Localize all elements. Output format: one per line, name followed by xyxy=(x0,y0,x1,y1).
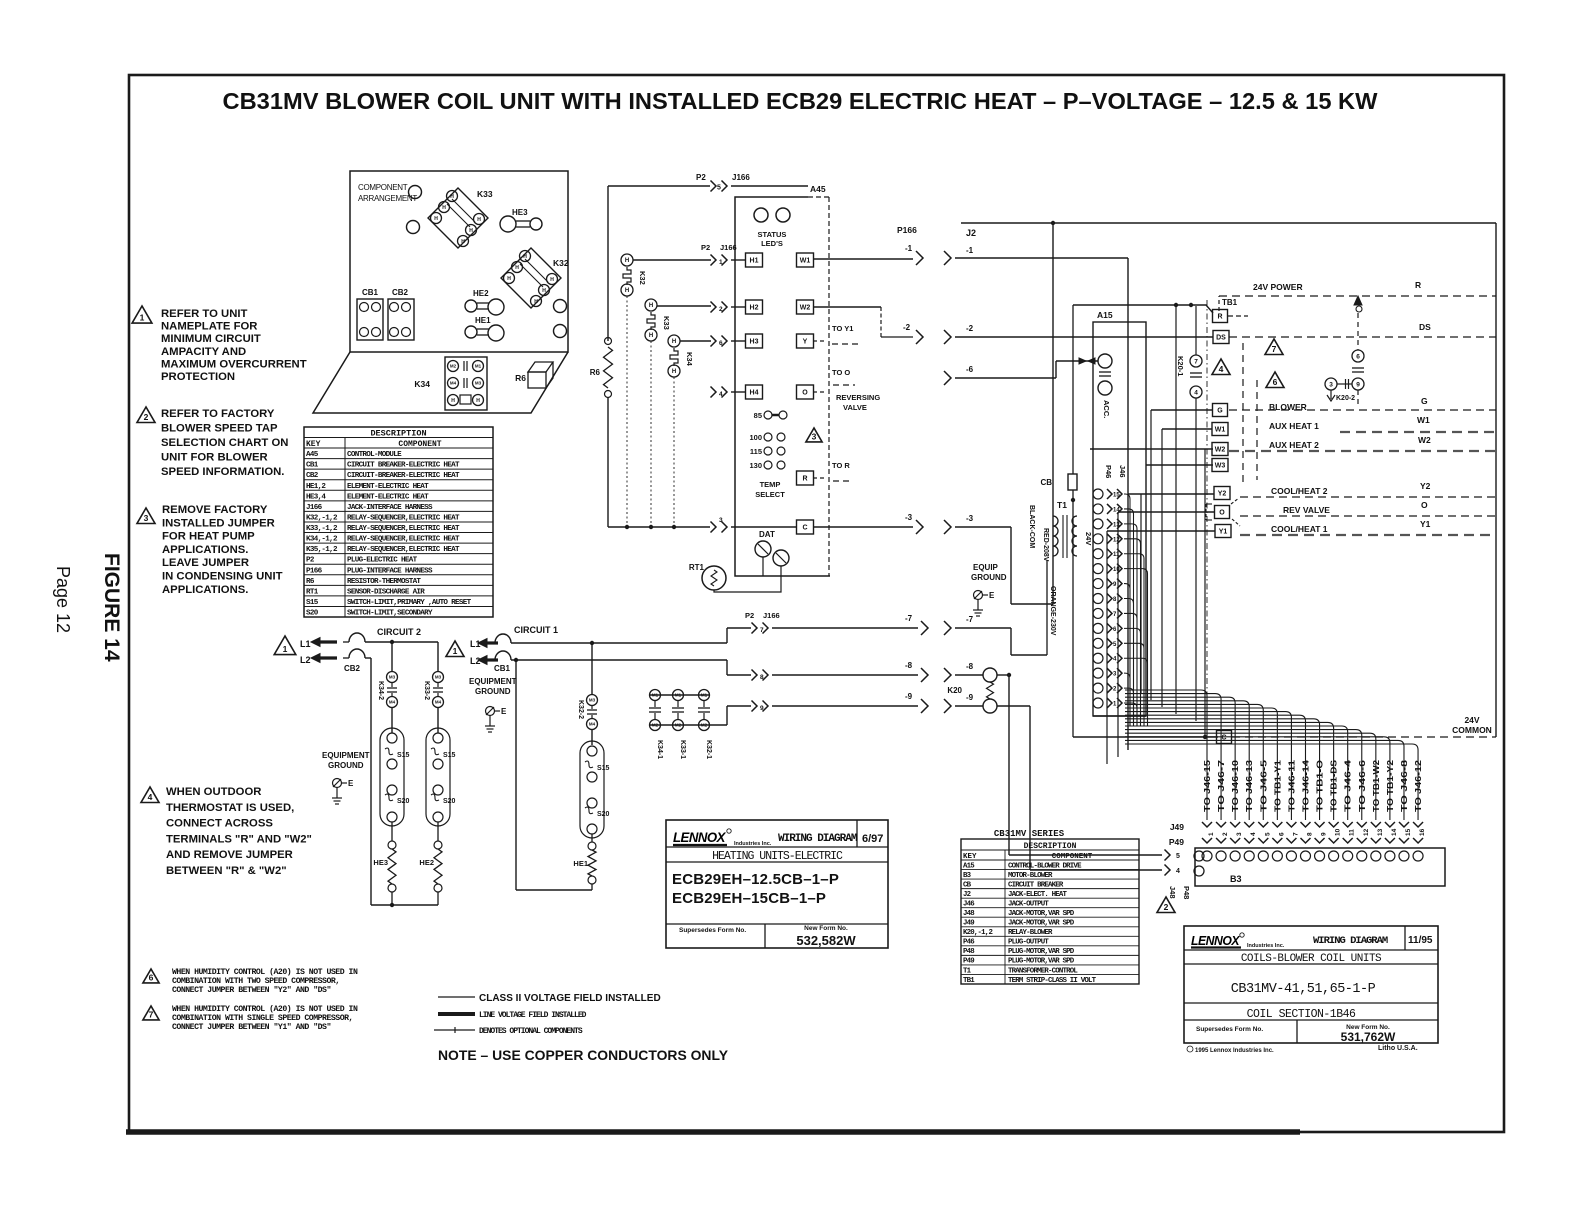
svg-text:REVERSING: REVERSING xyxy=(836,393,880,402)
svg-text:M4: M4 xyxy=(389,700,396,705)
svg-text:W2: W2 xyxy=(1215,447,1226,454)
svg-text:CONTROL-MODULE: CONTROL-MODULE xyxy=(347,451,402,459)
svg-text:12: 12 xyxy=(1113,537,1120,543)
svg-text:CB31MV-41,51,65-1-P: CB31MV-41,51,65-1-P xyxy=(1231,982,1376,997)
svg-text:REV VALVE: REV VALVE xyxy=(1283,505,1330,515)
svg-text:BETWEEN "R" & "W2": BETWEEN "R" & "W2" xyxy=(166,865,287,877)
svg-text:TO TB1-O: TO TB1-O xyxy=(1315,759,1325,812)
svg-text:H: H xyxy=(507,276,511,282)
svg-text:TO J46-8: TO J46-8 xyxy=(1399,759,1409,812)
svg-text:INSTALLED JUMPER: INSTALLED JUMPER xyxy=(162,517,275,529)
svg-text:M2: M2 xyxy=(701,723,708,728)
svg-text:3: 3 xyxy=(812,431,817,441)
svg-text:NOTE – USE COPPER CONDUCTORS O: NOTE – USE COPPER CONDUCTORS ONLY xyxy=(438,1048,728,1063)
svg-text:CIRCUIT 2: CIRCUIT 2 xyxy=(377,627,421,637)
svg-text:2: 2 xyxy=(1164,902,1169,912)
svg-text:CONNECT ACROSS: CONNECT ACROSS xyxy=(166,818,273,830)
svg-text:A45: A45 xyxy=(306,451,319,459)
svg-text:1: 1 xyxy=(283,644,288,654)
svg-text:R6: R6 xyxy=(590,368,601,377)
svg-text:W1: W1 xyxy=(1215,427,1226,434)
svg-text:RESISTOR-THERMOSTAT: RESISTOR-THERMOSTAT xyxy=(347,578,421,586)
svg-text:CLASS II VOLTAGE FIELD INSTALL: CLASS II VOLTAGE FIELD INSTALLED xyxy=(479,993,661,1004)
svg-text:SENSOR-DISCHARGE AIR: SENSOR-DISCHARGE AIR xyxy=(347,588,425,596)
svg-text:MOTOR-BLOWER: MOTOR-BLOWER xyxy=(1008,872,1053,880)
svg-text:Industries Inc.: Industries Inc. xyxy=(1247,943,1285,949)
svg-text:-3: -3 xyxy=(905,513,913,522)
svg-text:J48: J48 xyxy=(1168,886,1177,899)
svg-text:J166: J166 xyxy=(720,243,737,252)
svg-text:H2: H2 xyxy=(750,305,759,312)
svg-text:M3: M3 xyxy=(589,698,596,703)
svg-text:2: 2 xyxy=(144,412,149,422)
svg-text:SWITCH-LIMIT,PRIMARY ,AUTO RES: SWITCH-LIMIT,PRIMARY ,AUTO RESET xyxy=(347,599,472,607)
svg-text:S20: S20 xyxy=(597,811,610,818)
svg-text:2: 2 xyxy=(1113,687,1117,693)
svg-text:TO Y1: TO Y1 xyxy=(832,324,853,333)
svg-text:New Form No.: New Form No. xyxy=(804,925,848,932)
svg-text:R6: R6 xyxy=(515,373,526,383)
svg-text:TO J46-14: TO J46-14 xyxy=(1300,759,1310,812)
svg-text:130: 130 xyxy=(749,461,762,470)
svg-text:WHEN HUMIDITY CONTROL (A20) IS: WHEN HUMIDITY CONTROL (A20) IS NOT USED … xyxy=(172,1004,358,1014)
svg-text:FIGURE 14: FIGURE 14 xyxy=(100,553,123,662)
svg-text:ECB29EH–15CB–1–P: ECB29EH–15CB–1–P xyxy=(672,890,826,907)
svg-text:CIRCUIT-BREAKER-ELECTRIC HEAT: CIRCUIT-BREAKER-ELECTRIC HEAT xyxy=(347,472,460,480)
svg-text:O: O xyxy=(802,390,808,397)
svg-text:TERMINALS "R" AND "W2": TERMINALS "R" AND "W2" xyxy=(166,833,312,845)
svg-text:M2: M2 xyxy=(675,723,682,728)
svg-text:1: 1 xyxy=(453,646,458,656)
svg-text:E: E xyxy=(501,707,507,716)
svg-text:COMPONENT: COMPONENT xyxy=(358,183,408,192)
svg-text:3: 3 xyxy=(144,513,149,523)
svg-text:-3: -3 xyxy=(966,514,974,523)
svg-text:B3: B3 xyxy=(1230,874,1242,884)
svg-text:ACC.: ACC. xyxy=(1102,400,1111,418)
svg-text:G: G xyxy=(1421,396,1428,406)
svg-text:J166: J166 xyxy=(732,173,750,182)
svg-text:Y1: Y1 xyxy=(1420,519,1431,529)
svg-text:STATUS: STATUS xyxy=(758,230,787,239)
svg-text:GROUND: GROUND xyxy=(971,573,1007,582)
svg-text:J49: J49 xyxy=(963,920,974,928)
svg-text:TO TB1-Y1: TO TB1-Y1 xyxy=(1272,760,1282,812)
svg-text:RT1: RT1 xyxy=(689,563,705,572)
svg-text:M1: M1 xyxy=(675,693,682,698)
svg-text:532,582W: 532,582W xyxy=(796,933,856,948)
svg-text:H: H xyxy=(476,398,480,404)
svg-text:3: 3 xyxy=(1329,381,1333,388)
svg-text:-8: -8 xyxy=(905,661,913,670)
svg-text:JACK-ELECT. HEAT: JACK-ELECT. HEAT xyxy=(1008,891,1068,899)
svg-text:5: 5 xyxy=(1264,832,1271,836)
svg-text:K32-2: K32-2 xyxy=(577,700,584,719)
svg-text:-2: -2 xyxy=(903,323,911,332)
svg-text:4: 4 xyxy=(1176,868,1180,875)
svg-text:R: R xyxy=(1217,314,1222,321)
svg-text:SELECT: SELECT xyxy=(755,490,785,499)
svg-text:100: 100 xyxy=(749,433,762,442)
svg-text:S15: S15 xyxy=(443,752,456,759)
svg-text:M1: M1 xyxy=(701,693,708,698)
svg-text:11: 11 xyxy=(1349,829,1356,836)
svg-text:1: 1 xyxy=(140,313,145,323)
svg-text:TERM STRIP-CLASS II VOLT: TERM STRIP-CLASS II VOLT xyxy=(1008,977,1097,985)
svg-text:14: 14 xyxy=(1113,507,1120,513)
svg-text:COMBINATION WITH SINGLE SPEED: COMBINATION WITH SINGLE SPEED COMPRESSOR… xyxy=(172,1014,353,1023)
svg-text:MINIMUM CIRCUIT: MINIMUM CIRCUIT xyxy=(161,333,261,345)
svg-text:W3: W3 xyxy=(1215,463,1226,470)
svg-text:H4: H4 xyxy=(750,390,759,397)
svg-text:R: R xyxy=(1415,280,1421,290)
svg-text:M3: M3 xyxy=(389,675,396,680)
svg-text:K35,-1,2: K35,-1,2 xyxy=(306,546,338,554)
svg-text:9: 9 xyxy=(1321,832,1328,836)
svg-text:A15: A15 xyxy=(1097,310,1113,320)
svg-text:-1: -1 xyxy=(966,246,974,255)
svg-text:DS: DS xyxy=(1216,335,1226,342)
svg-text:TO J46-5: TO J46-5 xyxy=(1258,759,1268,812)
svg-text:K32,-1,2: K32,-1,2 xyxy=(306,514,338,522)
svg-text:K20,-1,2: K20,-1,2 xyxy=(963,929,992,937)
svg-text:UNIT FOR BLOWER: UNIT FOR BLOWER xyxy=(161,452,268,464)
svg-text:TO O: TO O xyxy=(832,368,850,377)
svg-text:1: 1 xyxy=(1113,702,1117,708)
svg-text:S20: S20 xyxy=(397,798,410,805)
svg-text:LINE VOLTAGE FIELD INSTALLED: LINE VOLTAGE FIELD INSTALLED xyxy=(479,1011,587,1020)
svg-text:H: H xyxy=(534,299,538,305)
svg-text:R: R xyxy=(802,476,807,483)
svg-text:5: 5 xyxy=(717,185,721,192)
svg-text:Industries Inc.: Industries Inc. xyxy=(734,841,772,847)
svg-text:ORANGE-230V: ORANGE-230V xyxy=(1049,586,1056,636)
svg-text:-2: -2 xyxy=(966,324,974,333)
svg-text:REFER TO FACTORY: REFER TO FACTORY xyxy=(161,408,275,420)
svg-text:2: 2 xyxy=(719,306,723,313)
svg-text:11: 11 xyxy=(1113,552,1120,558)
svg-text:J48: J48 xyxy=(963,910,975,918)
svg-text:K33: K33 xyxy=(662,316,671,330)
svg-text:BLOWER SPEED TAP: BLOWER SPEED TAP xyxy=(161,423,278,435)
svg-text:PROTECTION: PROTECTION xyxy=(161,371,235,383)
svg-text:ELEMENT-ELECTRIC HEAT: ELEMENT-ELECTRIC HEAT xyxy=(347,483,429,491)
svg-text:R6: R6 xyxy=(306,578,315,586)
svg-text:CB2: CB2 xyxy=(344,664,361,673)
svg-text:4: 4 xyxy=(148,792,153,802)
svg-text:H: H xyxy=(542,288,546,294)
svg-text:S15: S15 xyxy=(397,752,410,759)
svg-text:HE2: HE2 xyxy=(419,858,434,867)
svg-text:J46: J46 xyxy=(1118,465,1127,478)
svg-text:L2: L2 xyxy=(300,655,311,665)
svg-text:FOR HEAT PUMP: FOR HEAT PUMP xyxy=(162,531,255,543)
svg-text:-9: -9 xyxy=(905,692,913,701)
svg-text:531,762W: 531,762W xyxy=(1341,1030,1396,1044)
svg-text:8: 8 xyxy=(1113,597,1117,603)
svg-text:11/95: 11/95 xyxy=(1408,935,1433,946)
svg-text:RT1: RT1 xyxy=(306,588,319,596)
svg-text:HE2: HE2 xyxy=(473,289,489,298)
svg-text:JACK-MOTOR,VAR SPD: JACK-MOTOR,VAR SPD xyxy=(1008,920,1075,928)
svg-text:TB1: TB1 xyxy=(1222,298,1238,307)
svg-text:6: 6 xyxy=(719,340,723,347)
svg-text:K33: K33 xyxy=(477,189,493,199)
svg-text:K33,-1,2: K33,-1,2 xyxy=(306,525,338,533)
svg-text:7: 7 xyxy=(1194,358,1198,365)
svg-text:CIRCUIT 1: CIRCUIT 1 xyxy=(514,625,558,635)
svg-text:4: 4 xyxy=(1113,657,1117,663)
svg-text:HE1,2: HE1,2 xyxy=(306,483,326,491)
svg-text:O: O xyxy=(1421,500,1428,510)
svg-text:K34,-1,2: K34,-1,2 xyxy=(306,536,338,544)
svg-text:LEAVE JUMPER: LEAVE JUMPER xyxy=(162,557,249,569)
svg-text:-6: -6 xyxy=(966,365,974,374)
svg-text:G: G xyxy=(1217,408,1223,415)
svg-text:TO J46-15: TO J46-15 xyxy=(1202,759,1212,812)
svg-text:TO TB1-Y2: TO TB1-Y2 xyxy=(1385,760,1395,812)
svg-text:P48: P48 xyxy=(963,948,975,956)
svg-text:2: 2 xyxy=(1222,832,1229,836)
svg-text:H: H xyxy=(625,258,629,264)
svg-text:6: 6 xyxy=(1356,353,1360,360)
svg-text:Y2: Y2 xyxy=(1218,491,1227,498)
svg-text:7: 7 xyxy=(760,627,764,634)
svg-text:16: 16 xyxy=(1419,828,1426,836)
svg-text:CB1: CB1 xyxy=(306,462,319,470)
svg-text:-8: -8 xyxy=(966,662,974,671)
svg-text:AND REMOVE JUMPER: AND REMOVE JUMPER xyxy=(166,849,293,861)
svg-text:H: H xyxy=(550,277,554,283)
svg-text:S20: S20 xyxy=(443,798,456,805)
svg-text:H: H xyxy=(672,369,676,375)
svg-text:14: 14 xyxy=(1391,828,1398,836)
svg-text:S20: S20 xyxy=(306,610,319,618)
svg-text:PLUG-OUTPUT: PLUG-OUTPUT xyxy=(1008,939,1049,947)
svg-text:M3: M3 xyxy=(435,675,442,680)
svg-text:TO J46-10: TO J46-10 xyxy=(1230,759,1240,812)
svg-text:W1: W1 xyxy=(1417,415,1430,425)
svg-text:BLACK-COM: BLACK-COM xyxy=(1028,505,1035,548)
svg-text:DAT: DAT xyxy=(759,530,775,539)
svg-text:NAMEPLATE FOR: NAMEPLATE FOR xyxy=(161,321,257,333)
svg-text:K33-2: K33-2 xyxy=(423,681,430,700)
svg-text:AMPACITY AND: AMPACITY AND xyxy=(161,346,246,358)
svg-text:GROUND: GROUND xyxy=(475,687,511,696)
svg-text:H: H xyxy=(461,239,465,245)
svg-text:13: 13 xyxy=(1377,828,1384,836)
svg-text:24V: 24V xyxy=(1084,532,1093,545)
svg-text:Page 12: Page 12 xyxy=(53,566,73,633)
svg-text:A45: A45 xyxy=(810,184,826,194)
svg-text:J2: J2 xyxy=(963,891,971,899)
svg-text:PLUG-INTERFACE HARNESS: PLUG-INTERFACE HARNESS xyxy=(347,567,433,575)
svg-text:LENNOX: LENNOX xyxy=(1191,934,1240,948)
svg-text:ELEMENT-ELECTRIC HEAT: ELEMENT-ELECTRIC HEAT xyxy=(347,493,429,501)
svg-text:15: 15 xyxy=(1113,493,1120,499)
svg-text:H: H xyxy=(625,288,629,294)
svg-text:13: 13 xyxy=(1113,522,1120,528)
svg-text:COMBINATION WITH TWO SPEED COM: COMBINATION WITH TWO SPEED COMPRESSOR, xyxy=(172,977,340,986)
svg-text:SWITCH-LIMIT,SECONDARY: SWITCH-LIMIT,SECONDARY xyxy=(347,610,433,618)
svg-text:HE1: HE1 xyxy=(475,316,491,325)
svg-text:H3: H3 xyxy=(750,339,759,346)
svg-text:3: 3 xyxy=(719,517,723,524)
svg-text:5: 5 xyxy=(1176,853,1180,860)
svg-text:M1: M1 xyxy=(475,364,482,369)
svg-text:M2: M2 xyxy=(652,723,659,728)
svg-text:H: H xyxy=(672,339,676,345)
svg-text:12: 12 xyxy=(1363,828,1370,836)
svg-text:P166: P166 xyxy=(897,225,917,235)
svg-text:M2: M2 xyxy=(450,364,457,369)
svg-text:H: H xyxy=(649,303,653,309)
svg-text:P49: P49 xyxy=(1169,837,1184,847)
svg-text:K34: K34 xyxy=(414,379,430,389)
svg-text:P2: P2 xyxy=(696,173,706,182)
svg-text:VALVE: VALVE xyxy=(843,403,867,412)
svg-text:CB1: CB1 xyxy=(494,664,511,673)
svg-text:TO J46-13: TO J46-13 xyxy=(1244,759,1254,812)
svg-text:85: 85 xyxy=(754,411,762,420)
svg-text:TB1: TB1 xyxy=(963,977,975,985)
svg-text:WHEN HUMIDITY CONTROL (A20) IS: WHEN HUMIDITY CONTROL (A20) IS NOT USED … xyxy=(172,967,358,977)
svg-text:COOL/HEAT 1: COOL/HEAT 1 xyxy=(1271,524,1328,534)
svg-text:GROUND: GROUND xyxy=(328,761,364,770)
svg-text:PLUG-MOTOR,VAR SPD: PLUG-MOTOR,VAR SPD xyxy=(1008,948,1075,956)
svg-text:TO TB1-W2: TO TB1-W2 xyxy=(1371,760,1381,812)
svg-text:H: H xyxy=(477,217,481,223)
svg-text:P2: P2 xyxy=(306,557,315,565)
svg-text:IN CONDENSING UNIT: IN CONDENSING UNIT xyxy=(162,571,283,583)
svg-text:K20-2: K20-2 xyxy=(1336,395,1355,402)
svg-text:H: H xyxy=(442,205,446,211)
svg-text:HE3: HE3 xyxy=(512,208,528,217)
svg-text:RELAY-SEQUENCER,ELECTRIC HEAT: RELAY-SEQUENCER,ELECTRIC HEAT xyxy=(347,546,460,554)
svg-text:CB1: CB1 xyxy=(362,288,379,297)
svg-text:AUX HEAT 1: AUX HEAT 1 xyxy=(1269,421,1319,431)
svg-text:EQUIP: EQUIP xyxy=(973,563,999,572)
svg-text:CB31MV BLOWER COIL UNIT WITH I: CB31MV BLOWER COIL UNIT WITH INSTALLED E… xyxy=(223,88,1378,114)
svg-text:SPEED INFORMATION.: SPEED INFORMATION. xyxy=(161,466,284,478)
svg-text:6: 6 xyxy=(149,972,154,982)
svg-text:EQUIPMENT: EQUIPMENT xyxy=(322,751,370,760)
svg-text:6: 6 xyxy=(1273,377,1278,387)
svg-text:15: 15 xyxy=(1405,828,1412,836)
svg-text:O: O xyxy=(1219,510,1225,517)
svg-text:JACK-OUTPUT: JACK-OUTPUT xyxy=(1008,900,1049,908)
svg-text:C: C xyxy=(802,525,807,532)
svg-text:Supersedes Form No.: Supersedes Form No. xyxy=(679,927,746,934)
svg-text:CIRCUIT BREAKER: CIRCUIT BREAKER xyxy=(1008,881,1064,889)
svg-text:M4: M4 xyxy=(435,700,442,705)
svg-text:W1: W1 xyxy=(800,258,811,265)
svg-text:8: 8 xyxy=(760,674,764,681)
svg-text:LENNOX: LENNOX xyxy=(673,830,726,845)
svg-text:CONNECT JUMPER BETWEEN "Y1" AN: CONNECT JUMPER BETWEEN "Y1" AND "DS" xyxy=(172,1022,331,1032)
svg-text:DS: DS xyxy=(1419,322,1431,332)
svg-text:Y: Y xyxy=(803,339,808,346)
svg-text:W2: W2 xyxy=(800,305,811,312)
svg-text:-7: -7 xyxy=(905,614,913,623)
svg-text:M1: M1 xyxy=(652,693,659,698)
svg-text:H: H xyxy=(469,228,473,234)
svg-text:115: 115 xyxy=(750,447,762,456)
svg-text:K32: K32 xyxy=(638,271,647,285)
svg-text:K32: K32 xyxy=(553,258,569,268)
svg-text:REFER TO UNIT: REFER TO UNIT xyxy=(161,308,248,320)
svg-text:E: E xyxy=(989,591,995,600)
svg-text:J166: J166 xyxy=(763,611,780,620)
svg-text:CONTROL-BLOWER DRIVE: CONTROL-BLOWER DRIVE xyxy=(1008,862,1082,870)
svg-text:-7: -7 xyxy=(966,615,974,624)
svg-text:24V: 24V xyxy=(1464,715,1479,725)
svg-text:S15: S15 xyxy=(597,765,610,772)
svg-text:MAXIMUM OVERCURRENT: MAXIMUM OVERCURRENT xyxy=(161,358,307,370)
svg-text:M4: M4 xyxy=(450,381,457,386)
svg-text:TO R: TO R xyxy=(832,461,850,470)
svg-text:COOL/HEAT 2: COOL/HEAT 2 xyxy=(1271,486,1328,496)
svg-text:W2: W2 xyxy=(1418,435,1431,445)
svg-text:RELAY-BLOWER: RELAY-BLOWER xyxy=(1008,929,1053,937)
svg-text:CONNECT JUMPER BETWEEN "Y2" AN: CONNECT JUMPER BETWEEN "Y2" AND "DS" xyxy=(172,985,331,995)
svg-text:RELAY-SEQUENCER,ELECTRIC HEAT: RELAY-SEQUENCER,ELECTRIC HEAT xyxy=(347,514,460,522)
svg-text:P49: P49 xyxy=(963,958,974,966)
svg-text:WIRING DIAGRAM: WIRING DIAGRAM xyxy=(1313,935,1388,947)
svg-text:ECB29EH–12.5CB–1–P: ECB29EH–12.5CB–1–P xyxy=(672,871,839,888)
svg-text:K32-1: K32-1 xyxy=(705,740,712,759)
svg-text:APPLICATIONS.: APPLICATIONS. xyxy=(162,584,248,596)
svg-text:Supersedes Form No.: Supersedes Form No. xyxy=(1196,1026,1263,1033)
svg-text:J49: J49 xyxy=(1170,822,1184,832)
svg-text:10: 10 xyxy=(1113,567,1120,573)
svg-text:K34: K34 xyxy=(685,352,694,367)
svg-text:7: 7 xyxy=(1113,612,1117,618)
svg-text:4: 4 xyxy=(1250,832,1257,836)
svg-text:RELAY-SEQUENCER,ELECTRIC HEAT: RELAY-SEQUENCER,ELECTRIC HEAT xyxy=(347,536,460,544)
svg-text:HE3: HE3 xyxy=(373,858,388,867)
svg-text:J2: J2 xyxy=(966,228,976,238)
svg-text:TO J46-6: TO J46-6 xyxy=(1357,759,1367,812)
svg-text:TO J46-12: TO J46-12 xyxy=(1413,759,1423,812)
svg-text:1: 1 xyxy=(719,259,723,266)
svg-text:TRANSFORMER-CONTROL: TRANSFORMER-CONTROL xyxy=(1008,967,1078,975)
svg-text:APPLICATIONS.: APPLICATIONS. xyxy=(162,544,248,556)
svg-text:EQUIPMENT: EQUIPMENT xyxy=(469,677,517,686)
svg-text:K34-2: K34-2 xyxy=(377,681,384,700)
svg-text:H: H xyxy=(451,398,455,404)
svg-text:ARRANGEMENT: ARRANGEMENT xyxy=(358,194,417,203)
svg-text:CB2: CB2 xyxy=(392,288,409,297)
svg-text:P2: P2 xyxy=(745,611,754,620)
svg-text:H: H xyxy=(515,265,519,271)
svg-text:P166: P166 xyxy=(306,567,323,575)
svg-text:T1: T1 xyxy=(1057,500,1067,510)
svg-text:RED-208V: RED-208V xyxy=(1042,528,1049,562)
svg-text:SELECTION CHART ON: SELECTION CHART ON xyxy=(161,437,288,449)
svg-text:4: 4 xyxy=(719,391,723,398)
svg-text:9: 9 xyxy=(760,705,764,712)
svg-text:K20: K20 xyxy=(947,686,962,695)
svg-text:-9: -9 xyxy=(966,693,974,702)
svg-text:J166: J166 xyxy=(306,504,323,512)
svg-text:HE3,4: HE3,4 xyxy=(306,493,326,501)
svg-text:3: 3 xyxy=(1113,672,1117,678)
svg-text:K34-1: K34-1 xyxy=(656,740,663,759)
svg-text:K33-1: K33-1 xyxy=(679,740,686,759)
svg-text:L1: L1 xyxy=(300,639,311,649)
svg-text:Y1: Y1 xyxy=(1219,529,1228,536)
